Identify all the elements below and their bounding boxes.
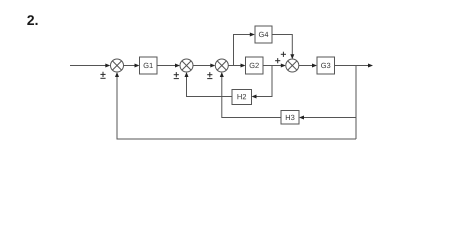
wire H2 to S2 bottom bbox=[187, 76, 233, 97]
block H3 bbox=[281, 111, 299, 125]
wire outer feedback loop to S1 bottom bbox=[117, 76, 356, 140]
arrow into S1 from bottom bbox=[115, 72, 119, 77]
wire feedback tap down from output bbox=[355, 66, 357, 140]
arrow output end bbox=[368, 64, 373, 68]
wire S4 to G3 bbox=[299, 65, 314, 67]
arrow into G3 bbox=[312, 64, 317, 68]
wire into H3 from right bbox=[303, 117, 357, 119]
arrow into S1 bbox=[105, 64, 110, 68]
arrow into H2 bbox=[252, 95, 257, 99]
arrow into S4 from top bbox=[290, 54, 294, 59]
summing junction S2 bbox=[180, 59, 193, 72]
summing junction S4 bbox=[286, 59, 299, 72]
arrow into H3 bbox=[299, 116, 304, 120]
problem number label "2." bbox=[27, 15, 37, 25]
block G4 bbox=[255, 26, 272, 43]
block G2 bbox=[246, 57, 264, 74]
wire G2 to S4 bbox=[263, 65, 282, 67]
arrowheads bbox=[105, 33, 373, 120]
summing junction S3 bbox=[215, 59, 228, 72]
arrow into S2 from bottom bbox=[185, 72, 189, 77]
block H2 bbox=[232, 90, 252, 105]
arrow into S3 bbox=[210, 64, 215, 68]
wire S3 to G2 bbox=[228, 65, 242, 67]
wire S1 to G1 bbox=[124, 65, 136, 67]
wire G4 to S4 top bbox=[272, 35, 292, 57]
sign label plus at S4 left input bbox=[275, 58, 280, 63]
summing junction S1 bbox=[111, 59, 124, 72]
wire input R to summing junction S1 bbox=[70, 65, 106, 67]
sign label plus-minus at S1 bbox=[100, 72, 105, 79]
arrow into G4 bbox=[250, 33, 255, 37]
sign label plus at S4 top input bbox=[281, 52, 286, 57]
arrow into S3 from bottom bbox=[220, 72, 224, 77]
arrow into S4 from left bbox=[281, 64, 286, 68]
sign label plus-minus at S2 bbox=[174, 72, 179, 79]
wire G1 to S2 bbox=[157, 65, 177, 67]
block G1 bbox=[140, 57, 158, 74]
arrow into S2 bbox=[175, 64, 180, 68]
block G3 bbox=[317, 57, 335, 74]
arrow into G1 bbox=[135, 64, 140, 68]
wire branch up to G4 bbox=[234, 35, 252, 66]
arrow into G2 bbox=[241, 64, 246, 68]
sign label plus-minus at S3 bbox=[207, 72, 212, 79]
wire H3 to S3 bottom bbox=[222, 76, 281, 118]
wire G3 output bbox=[335, 65, 370, 67]
wire tap down from G2 output to H2 bbox=[255, 66, 272, 97]
wire S2 to S3 bbox=[193, 65, 212, 67]
